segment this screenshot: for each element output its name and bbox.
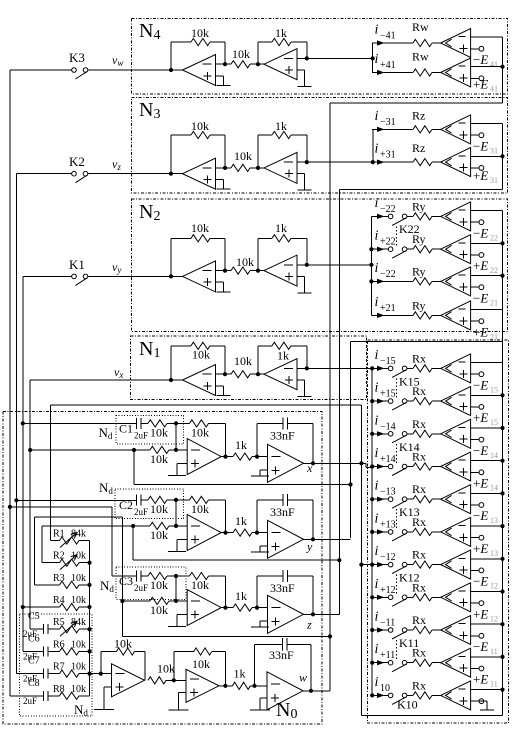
ground integrator: [260, 620, 268, 622]
resistor R2 10k: [60, 559, 80, 566]
comparator i−14: [441, 419, 471, 448]
comparator i−12: [441, 550, 471, 579]
wire R2 riser to y-row minus: [41, 526, 43, 563]
svg-text:+13: +13: [380, 519, 396, 530]
node stem i−14: [370, 432, 374, 436]
resistor Rx of i10: [413, 692, 432, 699]
node C2 feed: [14, 498, 18, 502]
svg-text:10k: 10k: [71, 662, 86, 673]
svg-text:1k: 1k: [235, 438, 247, 452]
wire i-21 output to bus: [471, 275, 503, 277]
node stem i−13: [370, 497, 374, 501]
wire vx to N1 input: [30, 379, 171, 381]
dashed box N0: [3, 412, 322, 725]
svg-text:2uF: 2uF: [134, 430, 148, 440]
node Rx bus: [500, 459, 504, 463]
wire C1 line from left: [23, 422, 137, 424]
wire node A to minus line: [175, 500, 177, 526]
node z-row minus feed: [120, 599, 124, 603]
svg-text:+E: +E: [473, 77, 488, 92]
svg-text:Rw: Rw: [412, 20, 429, 34]
wire top distribution line: [51, 404, 362, 406]
node N2 input on stem: [369, 263, 373, 267]
node stem i+11: [370, 661, 374, 665]
svg-text:11: 11: [490, 647, 498, 656]
wire branch i-22a: [377, 214, 385, 219]
wire w-A2 out: [219, 685, 232, 687]
node Rx bus: [500, 655, 504, 659]
node N2-A2 output: [305, 263, 309, 267]
wire i+15 output to bus: [471, 394, 503, 396]
svg-text:10k: 10k: [71, 573, 86, 584]
svg-text:13: 13: [490, 516, 498, 525]
wire branch i+12: [377, 595, 385, 600]
switch gang link K14: [396, 444, 398, 464]
svg-text:+E: +E: [473, 541, 488, 556]
svg-text:−E: −E: [473, 574, 488, 589]
node C1 feed: [21, 421, 25, 425]
svg-text:10k: 10k: [236, 255, 254, 269]
wire K2 to N3 input: [88, 173, 171, 175]
svg-text:K15: K15: [399, 374, 420, 388]
wire y output: [304, 538, 351, 540]
node stem i+12: [370, 595, 374, 599]
svg-text:10k: 10k: [150, 452, 168, 466]
comparator i-31: [441, 115, 471, 144]
svg-text:i: i: [375, 261, 379, 276]
terminal i−13 reference: [471, 504, 479, 506]
svg-text:i: i: [375, 446, 379, 461]
svg-text:+11: +11: [380, 650, 395, 661]
svg-text:10k: 10k: [71, 595, 86, 606]
wire branch i-31: [377, 127, 385, 132]
wire C8 feed from K3 column: [10, 695, 44, 697]
resistor Rx of i−12: [413, 561, 432, 568]
capacitor 33nF w integrator: [254, 644, 256, 686]
node on minus line: [174, 448, 178, 452]
terminal i−15 reference: [471, 373, 479, 375]
wire i+14 output to bus: [471, 460, 503, 462]
wire node A to minus line: [175, 576, 177, 601]
wire C7 feed from K2 column: [16, 673, 43, 675]
svg-text:12: 12: [490, 582, 498, 591]
ground row amp: [177, 462, 187, 464]
svg-text:Rx: Rx: [412, 548, 426, 562]
resistor R3 10k: [60, 581, 80, 588]
wire Rx bus bottom return: [361, 714, 502, 716]
svg-text:i: i: [375, 52, 379, 67]
resistor N2-A2 feedback 1k: [257, 238, 259, 270]
resistor Rx of i+13: [413, 528, 432, 535]
wire N3 bus drop to z node: [338, 190, 340, 615]
op-amp N2-A2: [264, 255, 297, 286]
node ladder bus: [87, 605, 91, 609]
svg-text:22: 22: [490, 266, 498, 275]
resistor Rx of i−13: [413, 496, 432, 503]
comparator i+31: [441, 148, 471, 177]
wire N2 comparator bus: [502, 211, 504, 342]
node x line tie: [359, 461, 363, 465]
wire i-22a output to bus: [471, 210, 503, 212]
svg-text:10k: 10k: [192, 657, 210, 671]
wire i−11 output to bus: [471, 623, 503, 625]
resistor Rx of i+11: [413, 659, 432, 666]
svg-text:+22: +22: [380, 237, 396, 248]
node row amp output: [223, 606, 227, 610]
svg-text:K11: K11: [399, 636, 419, 650]
wire x node drop column: [360, 405, 362, 715]
wire left column K2 drop: [15, 174, 17, 674]
svg-text:13: 13: [490, 549, 498, 558]
capacitor C3 2uF: [136, 571, 138, 582]
svg-text:i: i: [375, 229, 379, 244]
svg-text:Rx: Rx: [412, 613, 426, 627]
svg-text:1k: 1k: [275, 221, 287, 235]
svg-text:Rx: Rx: [412, 351, 426, 365]
resistor N1 series 10k: [231, 371, 250, 378]
wire w-A1 minus input from ladder bus: [90, 673, 112, 675]
node row amp output: [223, 531, 227, 535]
ground row amp: [177, 538, 187, 540]
wire branch i+41: [377, 70, 385, 75]
svg-text:K1: K1: [69, 257, 85, 272]
wire N4-A1 output: [216, 63, 232, 65]
wire N2 bus return: [351, 341, 503, 343]
svg-text:−31: −31: [380, 117, 396, 128]
terminal i-41 reference: [471, 48, 479, 50]
comparator i+21: [441, 301, 471, 330]
svg-text:10k: 10k: [71, 684, 86, 695]
svg-text:R1: R1: [53, 529, 65, 540]
wire N1 output to i-15: [307, 367, 372, 369]
wire ladder bus: [89, 541, 91, 696]
resistor N2 series 10k: [231, 267, 250, 274]
wire y-minus dropper to long line: [131, 524, 135, 528]
resistor N3 series 10k: [231, 164, 250, 171]
wire i-31 output to bus: [471, 123, 503, 125]
wire N3 output to stem: [307, 161, 373, 163]
svg-text:i: i: [375, 675, 379, 690]
svg-text:−E: −E: [473, 138, 488, 153]
op-amp row integrator: [268, 444, 304, 482]
wire N1-A2 output stub: [297, 367, 307, 369]
ground integrator: [260, 545, 268, 547]
comparator i-21: [441, 267, 471, 296]
terminal i-31 reference: [471, 134, 479, 136]
resistor Rw of i-41: [413, 39, 432, 46]
svg-text:−15: −15: [380, 356, 396, 367]
svg-text:−41: −41: [380, 31, 396, 42]
ground N1-A2: [297, 379, 305, 381]
wire R1 feed from top line: [50, 405, 52, 541]
wire i+11 output to bus: [471, 656, 503, 658]
svg-text:11: 11: [490, 680, 498, 689]
capacitor 33nF integrator feedback: [256, 423, 258, 456]
node N4-A1 output: [223, 62, 227, 66]
switch on branch i−12: [388, 562, 393, 567]
node Rx bus: [500, 426, 504, 430]
node coupling on N4 drop: [328, 634, 332, 638]
wire N2 output to stem: [307, 264, 372, 266]
node C3 feed: [8, 505, 12, 509]
capacitor C1 2uF: [136, 418, 138, 429]
svg-text:2uF: 2uF: [134, 583, 148, 593]
svg-text:K3: K3: [69, 50, 85, 65]
switch on branch i+22: [388, 247, 393, 252]
svg-text:i: i: [375, 413, 379, 428]
capacitor 33nF integrator feedback: [256, 576, 258, 608]
wire branch i−12: [377, 562, 385, 567]
terminal i+14 reference: [471, 471, 479, 473]
svg-text:−12: −12: [380, 552, 396, 563]
node stem i10: [370, 693, 374, 697]
svg-text:+14: +14: [380, 454, 396, 465]
svg-text:C7: C7: [28, 656, 40, 667]
svg-text:+31: +31: [380, 150, 396, 161]
svg-text:10k: 10k: [150, 502, 168, 516]
comparator i−13: [441, 485, 471, 514]
wire i−13 output to bus: [471, 492, 503, 494]
resistor 10k on minus input: [150, 522, 169, 529]
svg-text:i: i: [375, 295, 379, 310]
svg-text:i: i: [375, 544, 379, 559]
capacitor C5 2uF: [43, 624, 45, 634]
svg-text:−13: −13: [380, 487, 396, 498]
resistor Ry of i+22: [413, 246, 432, 253]
svg-text:33nF: 33nF: [270, 581, 295, 595]
node N3 stem: [371, 160, 375, 164]
node N3-A1 output: [223, 166, 227, 170]
node N1-A1 output: [223, 372, 227, 376]
node stem i+14: [370, 464, 374, 468]
svg-text:−22: −22: [380, 204, 396, 215]
ground N1-A1: [216, 385, 224, 387]
resistor 10k row input: [141, 422, 148, 424]
op-amp N1-A1: [183, 365, 216, 396]
node Rx bus: [500, 524, 504, 528]
comparator i−15: [441, 354, 471, 383]
wire left column K3 drop: [9, 70, 11, 696]
resistor Ry of i-22a: [413, 213, 432, 220]
wire left column to K2: [16, 173, 71, 175]
wire x-row input drop: [133, 450, 135, 485]
wire i−14 output to bus: [471, 427, 503, 429]
svg-text:R4: R4: [53, 595, 65, 606]
terminal i10 reference: [471, 700, 479, 702]
svg-text:C8: C8: [28, 678, 40, 689]
svg-text:14: 14: [490, 451, 498, 460]
resistor 10k row feedback: [176, 575, 190, 577]
switch on branch i−14: [388, 432, 393, 437]
resistor Rx of i−15: [413, 365, 432, 372]
wire i-12 input: [361, 564, 372, 566]
svg-text:22: 22: [490, 233, 498, 242]
wire amp output: [221, 607, 233, 609]
switch on branch i−15: [388, 366, 393, 371]
resistor Ry of i+21: [413, 312, 432, 319]
svg-text:R6: R6: [53, 639, 65, 650]
switch gang link K15: [396, 378, 398, 398]
svg-text:10k: 10k: [150, 603, 168, 617]
resistor 10k w-A2 feedback: [173, 652, 175, 681]
resistor N1-A2 feedback 1k: [257, 346, 259, 374]
switch gang link K22: [396, 227, 398, 247]
wire N1-A1 output: [216, 373, 232, 375]
wire i+13 output to bus: [471, 525, 503, 527]
svg-text:1k: 1k: [275, 26, 287, 40]
node stem i−11: [370, 628, 374, 632]
wire N4 bus return: [330, 102, 503, 104]
wire left column vx drop: [29, 380, 31, 629]
resistor 1k of row: [233, 529, 252, 536]
svg-text:R2: R2: [53, 551, 65, 562]
svg-text:10k: 10k: [114, 637, 132, 651]
dashed box N1: [131, 336, 367, 399]
svg-text:−14: −14: [380, 421, 396, 432]
svg-text:41: 41: [490, 85, 498, 94]
wire i−15 output to bus: [471, 362, 503, 364]
svg-text:33nF: 33nF: [269, 648, 294, 662]
svg-text:Rw: Rw: [412, 50, 429, 64]
node integrator output: [311, 612, 315, 616]
svg-text:R3: R3: [53, 573, 65, 584]
comparator i+13: [441, 517, 471, 546]
svg-text:Ry: Ry: [412, 199, 426, 213]
wire z-row minus from dropper: [122, 600, 150, 602]
dotted box Nd of z row: [116, 567, 186, 599]
wire z output: [304, 613, 340, 615]
wire branch i-41: [377, 40, 385, 45]
svg-text:−E: −E: [473, 377, 488, 392]
node Rx bus: [500, 589, 504, 593]
wire amp output: [221, 456, 233, 458]
svg-text:1k: 1k: [275, 119, 287, 133]
svg-text:31: 31: [490, 146, 498, 155]
svg-text:14: 14: [490, 484, 498, 493]
wire branch i−14: [377, 431, 385, 436]
op-amp N4-A1: [183, 55, 216, 86]
svg-text:i: i: [375, 348, 379, 363]
resistor Ry of i-21: [413, 278, 432, 285]
node tie of x-row input line: [348, 482, 352, 486]
op-amp row first stage: [187, 515, 221, 551]
wire i-41 output to bus: [471, 36, 503, 38]
terminal i+41 reference: [471, 77, 479, 79]
resistor N4-A1 feedback 10k: [170, 42, 172, 70]
resistor 10k row input: [141, 575, 148, 577]
wire N2 stem: [370, 216, 372, 315]
resistor 1k of row: [233, 453, 252, 460]
ground w-A2: [179, 692, 187, 694]
svg-text:10k: 10k: [191, 578, 209, 592]
svg-text:z: z: [306, 617, 312, 631]
switch gang link K12: [396, 575, 398, 595]
node w-A2 input: [172, 678, 176, 682]
terminal i-22a reference: [471, 221, 479, 223]
terminal i−12 reference: [471, 569, 479, 571]
wire branch i10: [377, 693, 385, 698]
node Rx bus: [500, 557, 504, 561]
comparator i−11: [441, 616, 471, 645]
resistor 10k row feedback: [176, 499, 190, 501]
svg-text:Ry: Ry: [412, 298, 426, 312]
wire N4 stem: [372, 43, 374, 73]
op-amp row first stage: [187, 439, 221, 475]
svg-text:i: i: [375, 642, 379, 657]
svg-text:1k: 1k: [277, 349, 289, 363]
comparator i+15: [441, 387, 471, 416]
wire i+12 output to bus: [471, 591, 503, 593]
comparator i-41: [441, 29, 471, 58]
resistor Rx of i−14: [413, 430, 432, 437]
op-amp w-A2: [186, 669, 219, 702]
node w output: [309, 689, 313, 693]
capacitor C6 2uF: [43, 646, 45, 656]
node on minus line: [174, 599, 178, 603]
dashed box comparator bank Rx: [368, 340, 509, 723]
svg-text:2uF: 2uF: [23, 696, 37, 706]
svg-text:1k: 1k: [235, 589, 247, 603]
wire branch i+11: [377, 660, 385, 665]
wire N4 bus drop to w node: [329, 103, 331, 691]
node A of row: [174, 574, 178, 578]
ground N4-A2: [297, 69, 305, 71]
wire branch i−15: [377, 366, 385, 371]
svg-text:10k: 10k: [234, 149, 252, 163]
terminal i+31 reference: [471, 167, 479, 169]
resistor N4 series 10k: [231, 61, 250, 68]
op-amp N2-A1: [183, 261, 216, 292]
svg-text:12: 12: [490, 614, 498, 623]
terminal i-21 reference: [471, 286, 479, 288]
resistor 1k of row: [233, 604, 252, 611]
svg-text:−E: −E: [473, 443, 488, 458]
wire N1-A1 input: [171, 379, 183, 381]
svg-text:K14: K14: [399, 440, 420, 454]
op-amp row integrator: [268, 595, 304, 633]
comparator i+22: [441, 235, 471, 264]
node stem i−12: [370, 563, 374, 567]
terminal i−11 reference: [471, 635, 479, 637]
svg-text:15: 15: [490, 385, 498, 394]
resistor Rz of i+31: [413, 159, 432, 166]
svg-text:15: 15: [490, 418, 498, 427]
node Rx bus: [500, 622, 504, 626]
svg-text:−22: −22: [380, 269, 396, 280]
node A of row: [174, 498, 178, 502]
dotted box Nd ladder: [19, 614, 92, 716]
wire N4 output to stem: [307, 57, 373, 59]
svg-text:33nF: 33nF: [270, 428, 295, 442]
svg-text:21: 21: [490, 332, 498, 341]
svg-text:10k: 10k: [157, 662, 175, 676]
node w integrator input: [252, 684, 256, 688]
resistor R7 10k: [60, 670, 80, 677]
svg-text:Ry: Ry: [412, 264, 426, 278]
wire y-row minus from left: [42, 525, 150, 527]
wire x-row minus from left: [30, 449, 134, 451]
wire left column to K1: [23, 275, 72, 277]
dashed box N4: [132, 18, 508, 94]
ground w integrator: [260, 697, 267, 699]
svg-text:10k: 10k: [234, 354, 252, 368]
node N4-A2 output: [305, 56, 309, 60]
svg-text:10k: 10k: [71, 639, 86, 650]
resistor N4-A2 feedback 1k: [257, 42, 259, 64]
svg-text:i: i: [375, 196, 379, 211]
svg-text:41: 41: [490, 60, 498, 69]
wire i+41 output to bus: [471, 66, 503, 68]
